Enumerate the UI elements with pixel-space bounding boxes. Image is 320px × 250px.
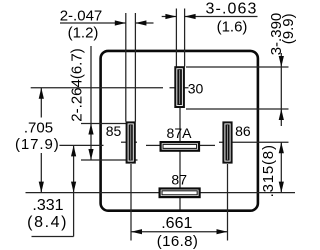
svg-text:3-.063: 3-.063 — [206, 1, 258, 18]
svg-text:30: 30 — [188, 80, 204, 96]
svg-text:2-.264(6.7): 2-.264(6.7) — [69, 48, 86, 121]
svg-text:(16.8): (16.8) — [157, 233, 199, 250]
svg-text:.331: .331 — [32, 197, 63, 214]
svg-text:87: 87 — [171, 172, 187, 188]
svg-text:(1.6): (1.6) — [217, 19, 248, 36]
svg-text:(1.2): (1.2) — [68, 25, 99, 42]
svg-text:(17.9): (17.9) — [15, 136, 60, 153]
svg-text:87A: 87A — [167, 125, 193, 141]
svg-text:.705: .705 — [24, 120, 53, 137]
svg-text:(8.4): (8.4) — [27, 214, 68, 231]
svg-text:.315(8): .315(8) — [260, 144, 277, 197]
svg-text:(9.9): (9.9) — [280, 13, 297, 44]
svg-text:2-.047: 2-.047 — [60, 8, 103, 25]
svg-text:86: 86 — [235, 123, 251, 139]
svg-text:.661: .661 — [161, 215, 192, 232]
svg-text:85: 85 — [106, 123, 122, 139]
